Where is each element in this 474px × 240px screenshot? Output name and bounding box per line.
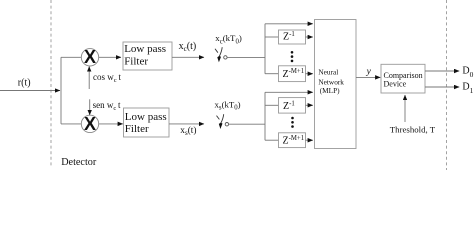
svg-text:cos wc t: cos wc t [93,72,121,84]
svg-text:Filter: Filter [124,55,148,67]
svg-text:Detector: Detector [61,157,97,168]
svg-text:X: X [84,114,96,134]
svg-text:Low pass: Low pass [125,111,167,123]
svg-text:Filter: Filter [125,123,149,135]
svg-text:y: y [366,67,372,77]
svg-text:Z-1: Z-1 [283,31,295,43]
svg-text:(MLP): (MLP) [320,86,340,95]
svg-text:xs(t): xs(t) [180,125,196,137]
svg-text:xc(t): xc(t) [179,41,197,53]
svg-text:D0: D0 [462,66,473,80]
svg-text:Threshold, T: Threshold, T [390,124,436,134]
svg-text:Device: Device [384,80,407,89]
svg-text:xs(kT0): xs(kT0) [215,99,241,111]
svg-text:sen wc t: sen wc t [93,100,121,112]
svg-text:Z-M+1: Z-M+1 [283,68,305,80]
svg-text:D1: D1 [462,81,473,95]
svg-text:Z-M+1: Z-M+1 [283,135,305,147]
svg-text:Low pass: Low pass [124,43,166,55]
svg-text:X: X [84,47,96,67]
svg-text:Z-1: Z-1 [283,100,295,112]
svg-text:r(t): r(t) [18,77,31,88]
svg-text:xc(kT0): xc(kT0) [215,33,242,45]
svg-text:Neural: Neural [318,67,338,76]
